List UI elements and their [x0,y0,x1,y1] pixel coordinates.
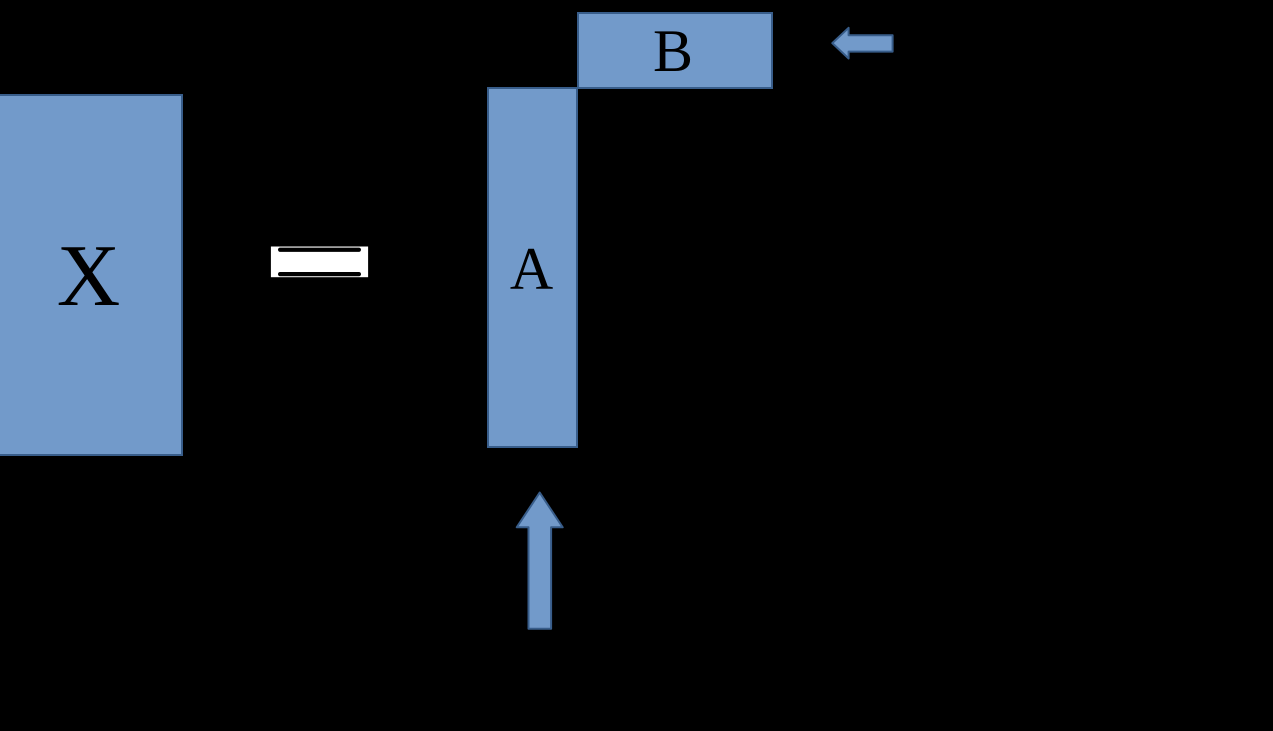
equals sign [271,247,368,278]
box B [577,12,773,89]
box A [487,87,578,448]
arrow left [832,28,892,59]
arrow up [517,493,563,629]
box X [0,94,183,456]
